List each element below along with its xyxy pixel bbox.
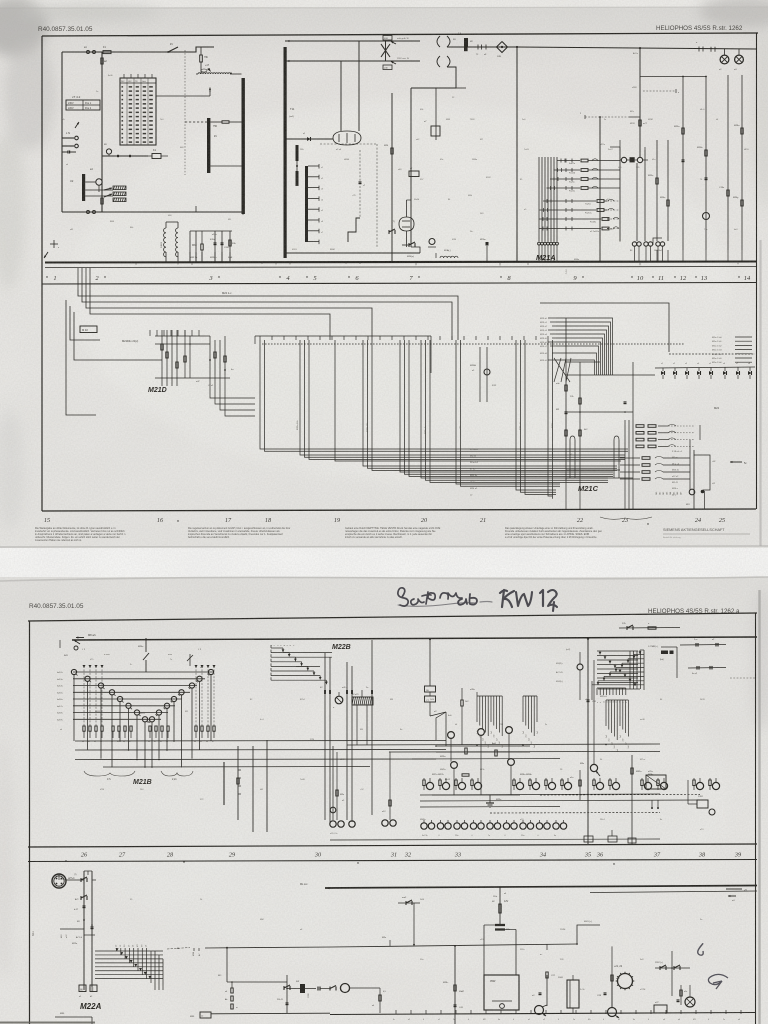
winding bar seg 1 [296, 145, 299, 161]
wire bar link [211, 121, 223, 123]
cap C7 [214, 242, 217, 244]
riser x672 [671, 951, 673, 996]
pentode V4 [399, 217, 414, 231]
fine-print paragraph [35, 527, 126, 542]
bottom rail ticks [395, 1010, 397, 1014]
capacitor C1 [67, 151, 69, 154]
cluster A resistors [465, 748, 467, 754]
harness bundle x260 [260, 340, 628, 449]
dashed net rail [262, 343, 685, 345]
comb teeth [308, 165, 319, 167]
small circle x432 [429, 239, 435, 245]
M21D cross wires [155, 335, 210, 337]
bus rail lower [45, 267, 756, 268]
M22A staircase [95, 950, 163, 952]
M21B right chevron transistors [208, 669, 213, 674]
contact row 1262 [655, 967, 690, 969]
component box x414 [409, 171, 419, 177]
riser from bus [189, 231, 191, 262]
dashed stub x640 [643, 90, 676, 92]
elbow wire right [411, 67, 456, 88]
pointer arrows [104, 188, 112, 190]
pilot lamp [106, 149, 111, 154]
tube V1 [96, 179, 102, 185]
dashed stub [730, 677, 755, 679]
mid cluster A [436, 712, 446, 740]
M21D extra wires [155, 343, 210, 345]
M21C out loop [694, 455, 710, 490]
top rail M22B [72, 637, 757, 640]
cascade wire 4 [90, 290, 330, 340]
bus band lower rule [42, 283, 757, 285]
DIN socket X5 [52, 874, 66, 888]
bottom left wire [55, 1016, 92, 1018]
contact set [409, 242, 415, 245]
page 2 frame top [28, 613, 757, 621]
riser xa [83, 871, 85, 990]
riser x414 [413, 903, 415, 945]
bus left cross [50, 243, 58, 245]
M21D resistors [166, 352, 168, 358]
relay circle R [637, 157, 642, 162]
riser x517 [516, 47, 518, 262]
right column 4 [741, 75, 743, 250]
M21B lower rails [75, 740, 446, 743]
M21C loop pair 2 [614, 436, 619, 440]
contact K2b [710, 47, 712, 52]
M21B resistor comb [83, 726, 85, 731]
wire y929 [60, 928, 84, 930]
net cluster wires [190, 230, 232, 232]
plug contact X2 [87, 211, 90, 214]
M22B staircase [271, 647, 283, 649]
tap table [120, 78, 156, 145]
coil bumps bottom [440, 256, 458, 258]
driver transistor row [423, 780, 425, 786]
riser x455b [454, 946, 456, 1024]
mid columns [656, 140, 658, 241]
transistor T62 [608, 1008, 617, 1017]
page 1 frame right [756, 33, 758, 509]
long wire 947 [332, 944, 577, 947]
slant box [646, 775, 666, 789]
M21C rail 412 [566, 411, 633, 413]
riser x411 [410, 88, 412, 247]
M21A rung 8 resistor a2 7w2Ox [539, 228, 601, 230]
harness bundle x363 [363, 340, 617, 466]
dashed mid riser [359, 150, 361, 218]
M21C bottom ticks [565, 478, 567, 509]
plug contact X1 [87, 51, 90, 54]
contact pair circles B [644, 242, 648, 246]
right bus ticks [656, 250, 658, 262]
resistor M32b [229, 240, 231, 246]
vertical comb 1 [476, 696, 478, 722]
left nest wire [66, 300, 96, 415]
resistor M33 [201, 244, 203, 250]
choke L2 [164, 228, 166, 257]
stair2 collect [592, 684, 644, 686]
screen bar long [284, 47, 287, 258]
riser x640 [639, 48, 641, 157]
small oval [201, 69, 207, 72]
M21D right drops [210, 375, 255, 398]
h-wire y76 [640, 76, 706, 78]
junction M [83, 919, 85, 921]
cluster 0,5 [379, 988, 381, 1013]
M21C resistor rows A [636, 425, 644, 428]
M21A rung 3 resistor 9w25c [550, 178, 580, 180]
V4 wires [406, 200, 408, 217]
contact A7 [81, 895, 87, 898]
output pair row [421, 823, 427, 829]
boxed label a30 [383, 65, 392, 70]
wire y935 [84, 934, 95, 936]
stair2 transistor [577, 664, 583, 670]
wire v R1 [101, 52, 103, 212]
page bottom shadow [0, 1022, 95, 1024]
harness bundle x300 [300, 340, 625, 455]
box b61 [654, 1005, 667, 1013]
contact K2a [698, 47, 700, 52]
dashed riser [184, 50, 186, 175]
page 2 right edge shadow [758, 590, 760, 1024]
cathode bar [82, 174, 85, 201]
coupling loops B [437, 56, 450, 67]
junction wires [85, 189, 113, 191]
harness bundle x516 [516, 340, 556, 490]
diode feed wire [285, 138, 333, 140]
page 2 frame left [29, 621, 31, 1024]
cap b17 [83, 905, 86, 907]
cap on dashed [359, 181, 362, 183]
lamp H61 [685, 997, 695, 1007]
page 2 top edge shadow [0, 577, 768, 581]
M21C bundle mid [624, 420, 626, 478]
wire L1 top [62, 51, 180, 53]
supply box [484, 975, 519, 1010]
col x232 wire [231, 982, 233, 988]
resistor R2 [101, 198, 103, 204]
node r1 [516, 46, 518, 48]
relay square [630, 157, 635, 162]
M22B staircase right [640, 649, 644, 651]
bus mid ticks [189, 252, 191, 262]
cap on x588 [587, 699, 590, 701]
riser x436 [435, 88, 437, 140]
lamp M3x [590, 764, 597, 771]
vertical comb 2 [522, 696, 524, 722]
page 1 frame left [41, 36, 43, 511]
step wire [348, 218, 360, 242]
M21B feed contact [145, 639, 147, 652]
cluster A resistor v [461, 688, 463, 700]
row1 rails [420, 794, 660, 795]
staircase label stubs [116, 948, 118, 951]
M21A top riser [619, 140, 621, 147]
riser x706 [705, 77, 707, 251]
dashed rail right [669, 353, 755, 355]
comb header 1 [477, 695, 502, 697]
right column 3 [727, 75, 729, 250]
M21A rung 4 resistor Fw22x [547, 187, 581, 189]
resistor R1 [101, 58, 103, 64]
mid cluster A riser [429, 639, 431, 686]
harness top feeds [259, 336, 261, 340]
M21A rung 6 resistor Fw2Oa [540, 209, 597, 211]
center risers [223, 762, 225, 805]
elbow bracket [653, 238, 662, 245]
harness bundle x400 [400, 340, 613, 472]
resistor on x640 [639, 120, 641, 126]
cap c61 [539, 992, 542, 994]
coupling loops A [437, 36, 450, 47]
screen bar end wire [285, 248, 420, 253]
comb bar [305, 166, 308, 242]
right drop x645 [644, 150, 646, 241]
brace under column 23 [600, 517, 652, 519]
riser x392 [391, 93, 393, 262]
contact 27b [627, 625, 633, 628]
cap xb [91, 926, 94, 928]
box stubs [356, 705, 358, 745]
wire y982 [227, 981, 287, 983]
left pair group [330, 821, 336, 827]
winding bar seg 2 [296, 171, 299, 186]
right cluster a2x [680, 985, 682, 1005]
cluster A circles [448, 732, 455, 739]
bus tick texture [79, 263, 81, 264]
riser x600 [599, 117, 601, 262]
riser x500 [499, 887, 501, 926]
page 1 frame top [42, 33, 758, 36]
wire from table [156, 95, 210, 97]
harness bundle x456 [456, 340, 560, 484]
page 1 right fold shadow [759, 240, 761, 546]
cascade wire 2 [82, 290, 452, 340]
riser x612 [611, 946, 613, 1008]
node x640 [639, 47, 641, 49]
bottom boxes [584, 836, 593, 842]
pen squiggle 9 [698, 944, 703, 955]
right rail stub [619, 627, 680, 630]
M21A rung 2 resistor Fw12b [554, 169, 581, 171]
switch row wire [102, 155, 148, 157]
paper center highlights [50, 100, 730, 970]
elbow x577 [577, 925, 600, 944]
node top [168, 51, 170, 53]
M22B staircase right rows [597, 650, 638, 652]
M21C out vertical [693, 450, 695, 509]
harness bundle x548 [548, 340, 552, 496]
net rail 303 [540, 303, 669, 352]
transformer winding bar [207, 118, 210, 173]
narrow relay box [567, 980, 579, 1008]
arrow mark [75, 122, 79, 128]
page 1 top edge shadow [0, 7, 768, 9]
staircase tail lines [283, 652, 332, 654]
long risers [324, 653, 326, 820]
bottom elbow [411, 247, 420, 253]
ground G1 [489, 795, 491, 803]
M21C out transistor [689, 489, 695, 495]
boxed icons [79, 985, 86, 992]
M21B feed 2 [189, 654, 191, 666]
bottom rail [330, 839, 660, 840]
M21C components L [565, 385, 567, 391]
choke L3 [176, 228, 178, 257]
M21A rung 7 resistor Fw18x [539, 218, 601, 220]
page 2 lower rule [28, 860, 757, 862]
wire 88 stub [456, 87, 466, 89]
cap C8 [221, 242, 224, 244]
M21B right dashed drops [195, 666, 197, 726]
center comb x238 [238, 769, 241, 771]
resistor x500 [499, 904, 501, 913]
wire tick M2x [389, 940, 391, 946]
left top circuitry p2 [59, 640, 61, 648]
rail nodes [476, 744, 478, 746]
contact am2 [398, 902, 420, 904]
cap thick x500 [495, 924, 505, 926]
motor M61 toothed [618, 974, 633, 989]
page 1 frame bottom [42, 509, 756, 511]
winding link [296, 161, 298, 171]
junction col x390 [389, 752, 391, 820]
riser top wire [58, 874, 60, 880]
brace right [161, 771, 193, 776]
relay K1 [152, 154, 161, 159]
row1 rail dash [540, 793, 700, 796]
lower rail A thin [590, 891, 757, 893]
relay lamp H2 [735, 55, 744, 64]
vert rail x632 [631, 755, 633, 844]
right drop x637 [636, 163, 638, 241]
harness bundle x421 [421, 340, 608, 478]
wire top run 2 [285, 60, 420, 62]
M23A part [479, 347, 481, 402]
rail arrow [327, 887, 336, 889]
bus rail upper [45, 262, 756, 263]
M21C frame left [565, 318, 567, 480]
harness bundle x335 [335, 340, 621, 461]
tube V3 envelope [333, 131, 361, 145]
handwritten annotation Seite ab KW 12 [398, 588, 557, 611]
resistor x580 [579, 770, 581, 800]
cluster A wires [436, 745, 530, 747]
M21A pin circles [538, 242, 541, 245]
white gap between pages [0, 548, 768, 577]
transformer T11 primary bar [242, 78, 245, 214]
M21A collector [619, 147, 621, 242]
connector pins [651, 800, 653, 808]
wire top run 1 [285, 40, 420, 42]
fine-print paragraph [505, 527, 603, 539]
page 2 paper [0, 577, 768, 1024]
M21A pin ticks [538, 245, 540, 262]
relay feed wires [620, 159, 622, 161]
cascade wire 3 [86, 290, 372, 340]
wire bar link 2 [211, 165, 242, 167]
M21A rung 1 resistor Fw07a [557, 160, 580, 162]
fine-print paragraph [345, 527, 441, 539]
M21B left dashed drops [83, 666, 85, 726]
resistor 127M [661, 651, 668, 655]
rail nodes [119, 740, 121, 742]
page 2 mid rule [28, 844, 757, 847]
M21C right rail [689, 440, 691, 476]
hatched relay box [352, 697, 373, 705]
feed rect top [255, 335, 431, 337]
fuse mark [464, 38, 468, 47]
riser stubs [324, 690, 326, 694]
fuse 76b [200, 55, 203, 62]
cluster A rail [432, 794, 520, 796]
right stub arrows [726, 888, 742, 890]
lower rail A [325, 886, 757, 889]
res col x232 [231, 988, 233, 993]
right arrow 5c [730, 461, 742, 463]
resistor r455 [454, 985, 456, 991]
comb header 2 [523, 695, 537, 697]
upper contact wire [680, 644, 726, 647]
contact pair circles C [656, 242, 660, 246]
boxed ref M32 [80, 326, 97, 333]
hatched resistor row [113, 186, 126, 190]
stub x487 [486, 246, 488, 262]
stair2 comb below [596, 688, 598, 695]
transistor T61 [535, 1006, 544, 1015]
bottom component rail [330, 1013, 755, 1015]
tube feeds [340, 61, 342, 131]
dashed row y117 [585, 116, 629, 118]
wire bar bottom [196, 211, 242, 213]
comb header 3 [606, 699, 628, 701]
diode comb [662, 368, 664, 372]
long wire 947L [205, 947, 332, 948]
left center parts [332, 746, 334, 820]
relay lamp H1 [720, 55, 729, 64]
stair2 collectors [629, 651, 631, 689]
fuse F1 [103, 51, 111, 54]
transistor Q10 [381, 44, 390, 57]
M21D verticals [161, 330, 163, 386]
resistor a27 [648, 627, 656, 629]
cap c62 [604, 992, 607, 994]
dashed branch [185, 121, 207, 123]
vert rail x588 [587, 639, 589, 845]
brace left [84, 771, 135, 776]
riser xb [91, 871, 93, 987]
M21B chevron drops [73, 675, 75, 741]
cascade wire 1 [78, 290, 458, 340]
wire y988 [287, 988, 316, 990]
table column stubs [123, 74, 125, 78]
dashed box top [320, 143, 377, 145]
vert x677 [676, 647, 678, 678]
contact pair circles A [632, 242, 636, 246]
M21C out wires right [689, 476, 691, 490]
vertical comb 3 [605, 700, 607, 726]
dashed box right [376, 144, 378, 248]
boxed label OVO [383, 36, 392, 41]
fw fuse cluster [300, 984, 305, 993]
lamp H5 [335, 696, 343, 704]
M21A rung 5 resistor 7w25x [543, 200, 596, 202]
contact box pair [425, 686, 436, 692]
lower contact wire [688, 667, 726, 670]
bus drop ticks [77, 268, 79, 290]
